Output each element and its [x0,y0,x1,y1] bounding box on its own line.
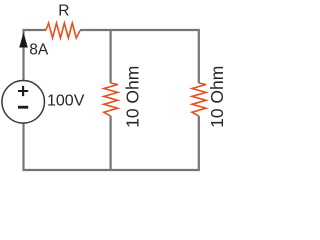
svg-text:10 Ohm: 10 Ohm [123,66,143,128]
svg-text:10 Ohm: 10 Ohm [207,66,227,128]
svg-text:R: R [58,2,69,19]
svg-text:100V: 100V [47,93,85,110]
svg-text:8A: 8A [29,41,49,58]
